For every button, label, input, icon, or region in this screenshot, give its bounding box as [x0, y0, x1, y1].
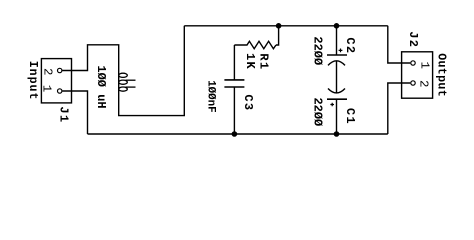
svg-text:2: 2: [417, 80, 431, 87]
svg-text:22ØØ: 22ØØ: [310, 97, 324, 126]
svg-text:C2: C2: [343, 37, 357, 54]
svg-text:1ØØnF: 1ØØnF: [205, 80, 217, 112]
svg-text:J2: J2: [406, 31, 420, 48]
svg-text:2: 2: [41, 68, 55, 75]
svg-text:1K: 1K: [243, 53, 257, 70]
svg-text:1ØØ uH: 1ØØ uH: [94, 65, 108, 108]
svg-text:Input: Input: [26, 61, 39, 101]
svg-text:J1: J1: [56, 106, 70, 123]
svg-text:22ØØ: 22ØØ: [310, 36, 324, 65]
svg-text:1: 1: [418, 62, 432, 69]
svg-text:C3: C3: [241, 94, 255, 111]
svg-text:1: 1: [40, 85, 54, 92]
svg-text:R1: R1: [256, 53, 270, 70]
svg-text:C1: C1: [343, 108, 357, 125]
svg-text:Output: Output: [434, 53, 447, 97]
